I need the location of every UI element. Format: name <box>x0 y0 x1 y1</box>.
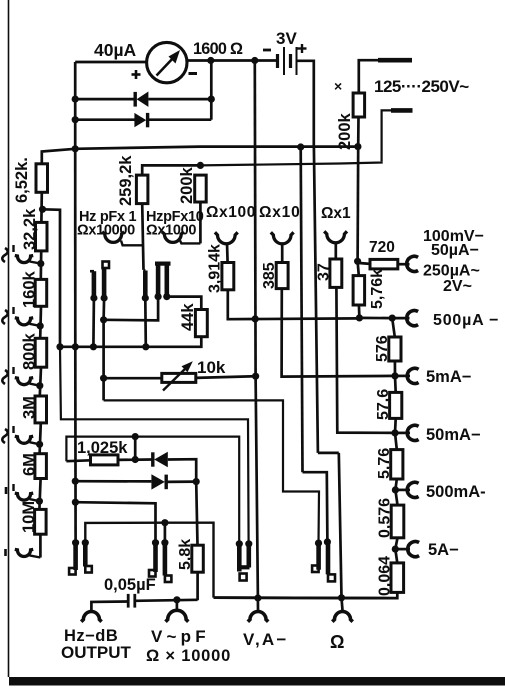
wiper bar A4A5 bracket <box>155 264 171 296</box>
label Ohm x100 <box>206 204 256 221</box>
resistor R32.2k body <box>36 222 48 251</box>
wire to 576 top <box>392 318 395 337</box>
wire R385 bottom lead <box>282 289 395 377</box>
wire 576 bottom <box>394 361 397 376</box>
node B4 route <box>161 519 168 526</box>
svg-text:800k: 800k <box>21 332 39 370</box>
meter M1 40uA circle <box>147 42 187 82</box>
resistor R6M body <box>35 454 47 479</box>
wire bar A3 down <box>144 298 147 347</box>
resistor R720 body <box>370 259 398 269</box>
wire 0.064 top <box>395 549 397 563</box>
wire omega stem <box>342 598 343 611</box>
pot arrow <box>163 361 193 390</box>
tilde row2 <box>2 307 13 324</box>
label omega <box>330 632 344 652</box>
terminal dome VApF <box>166 610 189 621</box>
svg-text:5,8k: 5,8k <box>177 539 194 570</box>
wire 5.8k bottom lead <box>196 572 199 600</box>
contact cup Hzpfx10 <box>162 232 184 243</box>
node bar B4 <box>161 539 168 546</box>
label 0,05uF <box>104 576 156 594</box>
node top bus right end <box>354 143 361 150</box>
node 500uA left <box>356 314 363 321</box>
node 800k-3M <box>36 382 43 389</box>
dash row5 <box>6 484 14 494</box>
node 200k-mid top <box>197 162 204 169</box>
svg-text:5mA−: 5mA− <box>426 368 471 386</box>
label 100mV <box>423 228 484 245</box>
wire A2 down to 10k <box>102 320 105 401</box>
svg-text:576: 576 <box>374 335 391 362</box>
diode D4 cathode bar <box>164 475 167 490</box>
label 6,52k. <box>13 157 31 203</box>
wire 5.76k top lead <box>358 261 359 275</box>
wire 57.6 bottom <box>394 418 397 433</box>
wiper bar B4 <box>163 543 168 576</box>
wire 6M-10M <box>39 479 40 510</box>
wire y400 route <box>104 400 319 543</box>
wire 1025k top route <box>66 437 239 543</box>
label HzpFx10 <box>146 209 204 225</box>
wire 10M bottom <box>39 534 42 557</box>
svg-text:200k: 200k <box>178 166 196 204</box>
svg-text:259,2k: 259,2k <box>117 155 135 206</box>
contact cup row2 <box>15 318 40 326</box>
label Ohm x1000 <box>146 223 196 239</box>
svg-text:V,A−: V,A− <box>243 630 289 649</box>
node omega terminal <box>338 594 345 601</box>
svg-text:160k: 160k <box>21 270 39 308</box>
svg-text:3,914k: 3,914k <box>207 244 224 293</box>
wire 0.576 top <box>395 490 397 505</box>
wire cap row <box>75 502 155 543</box>
svg-text:500mA-: 500mA- <box>426 483 486 501</box>
resistor R10M body <box>35 509 47 534</box>
wire R3914 bottom to 500uA line <box>228 290 360 319</box>
wire left bus lower <box>74 347 77 543</box>
node 10k right <box>252 373 259 380</box>
contact cup Ohmx100 <box>215 232 238 244</box>
svg-text:385: 385 <box>261 262 278 289</box>
svg-text:44k: 44k <box>179 303 197 331</box>
wire R37 bottom to 50mA <box>336 287 395 433</box>
node bar B1 <box>72 539 79 546</box>
node 50mA <box>391 429 398 436</box>
svg-text:10k: 10k <box>197 358 226 377</box>
contact cup Hzpfx1 <box>102 232 124 243</box>
wire 10k right lead <box>196 376 256 378</box>
svg-text:3M: 3M <box>21 396 39 419</box>
wire 44k bottom route <box>60 337 201 347</box>
node bar B6 <box>245 540 252 547</box>
resistor R5.76k body <box>353 276 365 305</box>
foot bar B2 <box>85 566 92 573</box>
svg-text:×: × <box>334 78 342 94</box>
node 500uA right <box>389 315 396 322</box>
label Ohm x10000 <box>77 223 135 239</box>
wire 57.6 top <box>394 376 397 393</box>
wire 500mA stub <box>395 489 410 492</box>
resistor R200k-mid body <box>195 175 207 202</box>
wire 5.8k top lead <box>196 482 197 546</box>
node bar A5 <box>163 293 170 300</box>
contact cup Ohmx10 <box>271 232 294 244</box>
wire 5mA stub <box>395 375 410 378</box>
svg-text:250µA~: 250µA~ <box>423 263 480 280</box>
wire bar A2 down <box>102 298 105 320</box>
contact cup row3 <box>15 378 40 386</box>
node diode row1 left <box>72 96 79 103</box>
contact cup row5 <box>15 493 40 501</box>
wire meter right to battery <box>187 59 278 62</box>
node bar A3 <box>142 294 149 301</box>
contact cup row1 <box>15 256 41 264</box>
resistor R6.52k body <box>36 164 48 193</box>
wire R200k-top bottom lead <box>357 117 360 147</box>
wiper bar A1 <box>90 271 94 296</box>
wire 6.52k top lead <box>42 149 75 164</box>
wire 0.064 bottom to bus <box>214 592 398 598</box>
node 1025k right <box>132 456 139 463</box>
node top bus x300 <box>297 143 304 150</box>
diode D2 cathode bar <box>146 113 149 127</box>
resistor R44k body <box>195 310 207 337</box>
svg-text:10M: 10M <box>20 501 38 533</box>
resistor R0.064 body <box>391 563 404 593</box>
label 800k <box>21 332 39 370</box>
wire 0.576 bottom <box>395 538 397 549</box>
svg-text:5,76k: 5,76k <box>369 269 386 309</box>
resistor R5.76 body <box>391 450 403 479</box>
node 720 junction <box>354 258 361 265</box>
diode D4 triangle <box>151 474 164 489</box>
node 160k-800k <box>37 322 44 329</box>
node bar B5 <box>236 540 243 547</box>
wire 720 right lead <box>398 263 410 266</box>
svg-text:Ωx1: Ωx1 <box>321 205 351 222</box>
svg-text:3V: 3V <box>276 29 297 48</box>
wire jog x301 to bar <box>303 472 328 542</box>
node 5A <box>392 546 399 553</box>
wire 160k-800k <box>39 306 42 338</box>
resistor R0.576 body <box>391 505 404 538</box>
label 500mA <box>426 483 486 501</box>
label Ohm x 10000 <box>146 647 231 665</box>
wire bar A5 to 44k <box>167 297 202 310</box>
label 200k top <box>336 112 354 150</box>
node 6M-10M <box>36 498 43 505</box>
label V~pF <box>151 627 210 646</box>
dash row6 <box>4 549 7 556</box>
foot bar B3 <box>149 570 156 577</box>
label 125-250V <box>374 77 469 96</box>
resistor R200k-top body <box>353 93 365 117</box>
label 200k mid <box>178 166 196 204</box>
node 10k left <box>100 375 107 382</box>
label 0,064 <box>377 556 394 596</box>
resistor R200k-top lead top <box>359 60 379 93</box>
resistor R385 body <box>276 263 288 289</box>
wire 5.76 bottom <box>395 479 396 490</box>
label 0,576 <box>377 498 394 538</box>
node 44k-line x146 <box>142 343 149 350</box>
svg-text:Ωx100: Ωx100 <box>206 204 256 221</box>
wire cap to VApF bus <box>136 600 198 601</box>
battery B1 3V plates <box>278 47 297 75</box>
wiper bar A3 <box>143 271 148 296</box>
label 10k <box>197 358 226 377</box>
svg-text:Ωx10: Ωx10 <box>259 204 301 221</box>
resistor R1.025k body <box>91 455 119 465</box>
wire y522 to bus <box>165 523 214 598</box>
svg-text:37: 37 <box>316 263 333 281</box>
node x61 bus T <box>56 343 63 350</box>
wire left bus upper <box>74 62 77 149</box>
wire cup1 tail <box>121 241 143 246</box>
label 500uA <box>433 312 499 329</box>
terminal dome VA <box>248 612 268 622</box>
svg-text:6M: 6M <box>21 453 39 476</box>
node top bus left <box>72 145 79 152</box>
bottom scan bar <box>9 677 505 686</box>
node cap row left <box>72 499 79 506</box>
label 160k <box>21 270 39 308</box>
label 5,76 <box>376 448 393 479</box>
wire D4 right <box>166 480 196 483</box>
contact 500mA <box>407 482 418 497</box>
resistor R5.8k body <box>192 545 204 572</box>
node bar B2 <box>82 539 89 546</box>
label 3V <box>276 29 297 48</box>
wire jog to omega line <box>318 452 339 455</box>
wire D3 right route <box>168 459 196 481</box>
label 57,6 <box>375 389 392 420</box>
svg-text:Ω × 10000: Ω × 10000 <box>146 647 231 665</box>
wire 500uA stub <box>392 317 409 320</box>
node battery branch <box>251 57 258 64</box>
svg-text:500µA −: 500µA − <box>433 312 499 329</box>
resistor R37 body <box>330 259 342 287</box>
label 720 <box>369 239 395 256</box>
node 44k-line x93 <box>90 343 97 350</box>
label 6M <box>21 453 39 476</box>
foot bar A2 top <box>103 262 110 269</box>
wire diode row1 right <box>148 98 211 101</box>
wire 200k-mid bottom lead <box>199 202 202 243</box>
node bar C1 <box>315 540 322 547</box>
svg-text:50µA−: 50µA− <box>431 242 479 259</box>
foot bar B5 <box>240 574 247 581</box>
wire 259k top lead <box>142 165 200 175</box>
node bar A2 <box>101 294 108 301</box>
wire cup Ohmx100 stem <box>226 243 229 263</box>
wire VApF stem <box>176 600 179 611</box>
svg-text:Ωx1000: Ωx1000 <box>146 223 196 239</box>
node 44k-line x75 <box>72 343 79 350</box>
wire cap left to HzdB <box>91 602 128 611</box>
wire 5.76 top <box>395 433 397 450</box>
label Hz pFx 1 <box>79 209 136 225</box>
wire meter top-left <box>75 61 147 64</box>
tilde row3 <box>2 367 13 384</box>
page edge line <box>8 0 10 677</box>
wire 720 left lead <box>358 263 370 264</box>
wire left bus mid <box>74 149 77 347</box>
label 2V <box>443 278 472 295</box>
diode D3 triangle <box>154 452 168 468</box>
label 50uA <box>431 242 479 259</box>
capacitor C1 0.05uF <box>128 594 135 608</box>
wire 259k lead into A3 <box>144 269 146 272</box>
wire battery left line down <box>253 61 257 377</box>
meter plus sign <box>132 70 141 79</box>
label 5mA <box>426 368 471 386</box>
diode D2 triangle <box>134 113 146 127</box>
battery plus sign <box>298 44 307 53</box>
label 5,76k <box>369 269 386 309</box>
contact 100mV <box>407 256 418 271</box>
wire 6.52k-32.2k <box>40 192 43 222</box>
wire 1025k left lead <box>66 459 90 463</box>
label 5,8k <box>177 539 194 570</box>
wire bar B2 up route <box>85 523 165 543</box>
node 32.2k-160k <box>37 260 44 267</box>
contact 500uA <box>407 311 418 326</box>
wiper bar B5 <box>237 544 242 572</box>
svg-text:50mA−: 50mA− <box>426 426 481 444</box>
label Hz-dB <box>64 627 118 645</box>
wire 259k bottom lead <box>142 204 143 270</box>
svg-text:2V~: 2V~ <box>443 278 472 295</box>
wire diode row2 left <box>75 118 134 121</box>
wiper bar C1 <box>316 543 321 570</box>
wire 165-line to stub <box>200 161 381 165</box>
wire 3M-6M <box>40 423 41 454</box>
node bar B3 <box>152 539 159 546</box>
label 576 <box>374 335 391 362</box>
svg-text:200k: 200k <box>336 112 354 150</box>
svg-text:V~pF: V~pF <box>151 627 210 646</box>
foot bar B1 <box>69 568 76 575</box>
wire 5A stub <box>395 548 410 551</box>
wire 10k left lead <box>104 377 162 380</box>
wire bar B4 link <box>164 523 167 543</box>
svg-text:1600 Ω: 1600 Ω <box>193 40 243 58</box>
svg-text:5A−: 5A− <box>428 541 459 559</box>
svg-text:40µA: 40µA <box>94 40 137 60</box>
wiper bar B1 <box>73 543 78 570</box>
wiper bar A2 <box>102 269 107 296</box>
node 500mA <box>392 486 399 493</box>
svg-text:0,064: 0,064 <box>377 556 394 596</box>
foot bar C2 <box>328 574 335 581</box>
wire diode row1 left <box>75 98 133 101</box>
node VApF terminal <box>173 596 180 603</box>
pot R10k body <box>162 373 196 382</box>
resistor R800k body <box>35 338 47 367</box>
node VA terminal <box>254 594 261 601</box>
wire bar A1 down <box>92 298 95 347</box>
label Ohm x1 <box>321 205 351 222</box>
svg-text:OUTPUT: OUTPUT <box>61 643 132 662</box>
resistor R160k body <box>35 279 47 306</box>
wire battery right <box>297 61 314 147</box>
node D-5.8k junction <box>193 478 200 485</box>
svg-text:Ω: Ω <box>330 632 344 652</box>
contact cup row4 <box>15 436 40 444</box>
label 250uA <box>423 263 480 280</box>
label V,A- <box>243 630 289 649</box>
wire VA stem <box>257 598 260 611</box>
foot bar C1 <box>312 566 319 573</box>
svg-text:125····250V~: 125····250V~ <box>374 77 469 96</box>
node A2-10k junction <box>100 316 107 323</box>
terminal dome omega <box>332 612 352 622</box>
node 6.52k-32.2k <box>39 206 46 213</box>
wire 1025k dot link <box>134 437 137 460</box>
resistor R3.914k body <box>222 263 234 290</box>
wire cup2 tail <box>180 241 200 244</box>
wire 500uA line <box>359 317 392 320</box>
diode D3 cathode bar <box>151 452 154 466</box>
resistor R576 body <box>389 337 401 361</box>
label 1,025k <box>77 439 128 457</box>
wire y420 route <box>60 347 249 543</box>
wire diode row2 left <box>75 480 151 483</box>
node 1025k top dot <box>132 433 139 440</box>
wire bus-down line x301 <box>301 147 303 472</box>
contact 5A <box>408 542 419 557</box>
switch stub upper 125-250V <box>378 58 412 63</box>
wire omega line down <box>339 453 342 598</box>
svg-text:5,76: 5,76 <box>376 448 393 479</box>
node bar A1 <box>90 294 97 301</box>
foot bar B4 <box>165 576 172 583</box>
small x mark <box>334 78 342 94</box>
label 259,2k <box>117 155 135 206</box>
svg-text:57,6: 57,6 <box>375 389 392 420</box>
wire 5.76k bottom lead <box>358 305 361 318</box>
node 5mA <box>391 372 398 379</box>
svg-text:0,576: 0,576 <box>377 498 394 538</box>
svg-text:720: 720 <box>369 239 395 256</box>
wiper bar B2 <box>83 543 88 567</box>
battery minus sign <box>263 49 271 52</box>
wire bar A4 route <box>104 297 159 321</box>
label 32,2k <box>21 208 39 250</box>
terminal dome HzdB <box>81 612 101 622</box>
wire 1025k right lead <box>118 458 152 461</box>
label 44k <box>179 303 197 331</box>
contact 50mA <box>407 425 418 440</box>
label 5A <box>428 541 459 559</box>
meter minus sign <box>189 72 198 75</box>
label 3,914k <box>207 244 224 293</box>
wire VA stem upper <box>256 376 258 598</box>
node d-row2 left <box>72 478 79 485</box>
svg-text:6,52k.: 6,52k. <box>13 157 31 203</box>
node meter-diode junction <box>207 57 214 64</box>
resistor R57.6 body <box>390 392 402 418</box>
label 3M <box>21 396 39 419</box>
wire node to x61 bus <box>43 209 61 346</box>
switch stub lower 125-250V <box>382 110 413 161</box>
wire cup Ohmx1 stem <box>334 242 337 260</box>
contact cup Ohmx1 <box>324 231 347 242</box>
label Ohm x10 <box>259 204 301 221</box>
wire 800k-3M <box>40 367 41 396</box>
